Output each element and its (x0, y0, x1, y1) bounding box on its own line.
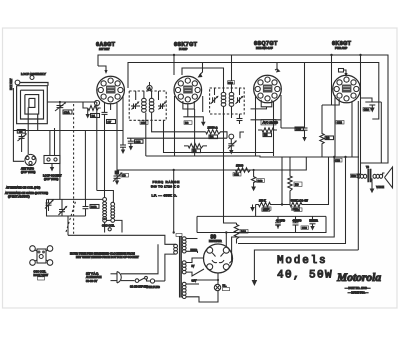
svg-text:KEY WHEN VIEWED FROM BOTTOM OF: KEY WHEN VIEWED FROM BOTTOM OF SOCKET (76, 255, 139, 259)
svg-text:6.3V: 6.3V (192, 281, 197, 283)
tone pot R11 (282, 198, 308, 212)
ground arrow under volume (250, 205, 255, 212)
wire x282 avc drop (281, 157, 283, 206)
wire bus y156 (146, 156, 359, 157)
wire heater winding (186, 281, 218, 303)
svg-text:R13: R13 (258, 179, 263, 183)
svg-text:FIELD: FIELD (191, 250, 198, 252)
svg-text:— MADE USA —: — MADE USA — (348, 291, 368, 295)
ground output (370, 182, 385, 194)
wire right vertical x381.7 (380, 102, 382, 163)
wire bus y170 (117, 157, 306, 171)
svg-text:C2A: C2A (64, 110, 70, 114)
label R2 (184, 121, 192, 125)
capacitor C13 (128, 138, 143, 150)
resistor R12 vertical (234, 223, 248, 244)
tube V4 6K6GT (333, 75, 361, 103)
resistor R9 (232, 163, 254, 176)
capacitor C7 (102, 102, 116, 198)
svg-text:OSC COIL: OSC COIL (102, 223, 115, 227)
svg-text:(IF NOT ADJUST): (IF NOT ADJUST) (8, 195, 30, 199)
svg-text:Motorola: Motorola (336, 272, 381, 284)
svg-text:C30: C30 (302, 226, 307, 230)
wire rectifier plate top (225, 231, 227, 247)
svg-text:C9: C9 (122, 174, 126, 178)
svg-text:R5: R5 (264, 133, 268, 137)
T1 trimmer left (131, 101, 140, 109)
svg-text:5V: 5V (192, 266, 195, 268)
capacitor C17 (237, 114, 243, 124)
filter cap C30b (293, 216, 309, 233)
svg-text:C16: C16 (228, 81, 233, 85)
wire junction riser x174 (173, 55, 175, 75)
wire osc bottom (105, 220, 122, 232)
svg-text:ATTENUATE ON GANG (BOTTOM): ATTENUATE ON GANG (BOTTOM) (5, 191, 48, 195)
osc coil back view (30, 246, 53, 280)
T1 trimmer right (158, 101, 167, 109)
T2 windings (215, 88, 240, 223)
svg-text:C12: C12 (141, 121, 146, 125)
output transformer T3 (350, 166, 384, 182)
dashed gang diagonal (66, 200, 76, 232)
wire tube2 cathode (183, 96, 205, 126)
label C12 (140, 121, 148, 125)
resistor R1 with ground (83, 102, 101, 119)
oscillator coil L2 (102, 198, 115, 231)
svg-text:R2: R2 (185, 121, 189, 125)
capacitor C19 (295, 63, 308, 142)
wire y128 avc row (281, 127, 305, 129)
wire tube4 screen (322, 75, 339, 105)
wire bus y138 (127, 137, 227, 139)
wire osc to bottom bus (67, 216, 69, 235)
svg-text:117 V A.C.: 117 V A.C. (86, 272, 99, 276)
filter cap C30a (275, 216, 285, 228)
svg-text:LOOP ASSEMBLY: LOOP ASSEMBLY (21, 72, 46, 76)
node dot top bus (173, 54, 175, 56)
resistor R13 vertical with ground (251, 169, 264, 191)
wire tube3 cathode row (251, 107, 282, 120)
svg-text:C24: C24 (364, 108, 369, 112)
label 6A8GT (96, 42, 116, 51)
dashed gang line (73, 104, 75, 235)
svg-text:R8: R8 (326, 136, 330, 140)
wire riser x331 (330, 54, 332, 75)
power transformer T2 (174, 234, 186, 299)
node A circle (147, 82, 152, 91)
wire tube1 pins down (97, 96, 123, 191)
text attenuate notes (5, 186, 48, 199)
filter choke (309, 216, 318, 230)
svg-text:R6: R6 (295, 183, 299, 187)
loop antenna L1 (17, 83, 48, 124)
svg-text:R1: R1 (92, 114, 96, 118)
wire HV winding to plate (186, 239, 197, 254)
label 6K6GT (332, 41, 352, 50)
note text tube pins (70, 252, 139, 260)
wire x85.4 drop (84, 131, 86, 200)
tube V2 6SK7GT (174, 76, 202, 104)
label 6SQ7GT (254, 41, 278, 50)
tube V1 6A8GT (94, 76, 124, 105)
capacitor C8 with ground (120, 145, 126, 154)
wire second top bus y62.5 (128, 63, 379, 120)
svg-text:— PART NO. 1840 —: — PART NO. 1840 — (345, 286, 370, 290)
svg-text:VOICE: VOICE (376, 186, 384, 189)
switch S1 (130, 276, 165, 288)
svg-text:500K LOG 4W: 500K LOG 4W (291, 198, 308, 202)
svg-text:40 MFD: 40 MFD (276, 219, 285, 222)
svg-text:C13: C13 (136, 140, 141, 144)
svg-text:SPKR PLUG: SPKR PLUG (146, 286, 160, 289)
capacitor C24 with ground (360, 98, 381, 113)
wire bottom tuning y216 (47, 199, 86, 216)
wire tube4 pins down (335, 95, 358, 250)
interlock plug on cord (146, 279, 160, 289)
wire x173.7 drop (173, 170, 175, 234)
svg-text:C26: C26 (264, 207, 269, 211)
svg-text:500: 500 (351, 174, 356, 178)
wire nested rect A (229, 157, 334, 263)
svg-text:Models: Models (277, 255, 327, 267)
resistor R5 (258, 128, 277, 137)
label C28 (292, 207, 300, 211)
text part lines (345, 286, 370, 295)
power cord plug (86, 272, 121, 284)
label C22 (336, 121, 344, 125)
wire cord upper (121, 244, 158, 273)
grid cap arrow V1 (98, 66, 108, 74)
svg-text:250 K: 250 K (259, 198, 266, 202)
wire screen loop over tube2 (182, 68, 224, 88)
speaker SP1 (385, 167, 393, 188)
svg-text:C19: C19 (296, 127, 301, 131)
svg-text:(TOP VIEW): (TOP VIEW) (21, 170, 35, 174)
trimmer C9 (113, 170, 129, 185)
tuning trimmer C4 (45, 199, 54, 211)
node dot bus2 (359, 54, 361, 56)
text Models (277, 255, 327, 267)
svg-text:AVC 2MEG: AVC 2MEG (263, 121, 279, 125)
svg-text:1ST DET: 1ST DET (99, 47, 110, 51)
T1 windings (136, 91, 206, 156)
svg-text:NOTE: TUBE PINS NUMBERED CLOC: NOTE: TUBE PINS NUMBERED CLOCKWISE FROM (70, 252, 136, 256)
wire transformer primary top (68, 235, 176, 244)
capacitor C10 (83, 199, 100, 216)
wire volume left riser (255, 205, 257, 217)
resistor R4 (206, 125, 227, 139)
svg-text:PWR AMP: PWR AMP (335, 46, 348, 50)
wire osc section riser (240, 132, 244, 138)
trimmer capacitor C3 (17, 130, 27, 153)
svg-text:20000 Ω: 20000 Ω (208, 125, 218, 129)
wire filament winding to rect (186, 250, 204, 276)
wire nested rect C (254, 250, 358, 280)
resistor R6 vertical (288, 157, 302, 205)
label AVC box (261, 120, 278, 125)
wire tube3 pins down (256, 95, 282, 156)
wire loop left down (13, 88, 24, 161)
svg-text:ALTERNATE: ALTERNATE (86, 275, 102, 279)
svg-text:C22: C22 (337, 121, 342, 125)
wire osc feed y190.5 (97, 191, 114, 203)
svg-text:S1 ON-OFF SW: S1 ON-OFF SW (130, 286, 148, 289)
svg-text:DET-AVC-1AF: DET-AVC-1AF (256, 46, 273, 50)
svg-text:FREQ RANGE: FREQ RANGE (153, 180, 180, 184)
IF transformer T1 dashed box (129, 91, 166, 120)
svg-text:EXT ANT: EXT ANT (9, 78, 13, 90)
resistor R3 (184, 144, 207, 154)
tuning capacitor C2A (55, 101, 72, 199)
volume pot R10 (256, 198, 282, 212)
svg-text:540 TO 1720 K C: 540 TO 1720 K C (151, 184, 180, 188)
wire socket feeds (50, 128, 55, 156)
svg-text:ATTENUATE ON COIL (540): ATTENUATE ON COIL (540) (6, 186, 40, 190)
ant plug P1 top view (21, 154, 36, 173)
label C16 (228, 81, 235, 85)
wire x360.5 drop to output transformer (360, 55, 362, 174)
svg-text:R12: R12 (241, 230, 246, 234)
wire cord lower (121, 280, 135, 282)
grid cap arrow V3 (275, 63, 281, 73)
svg-text:P.L.: P.L. (223, 285, 227, 288)
wire bus y152.5 (164, 120, 274, 152)
svg-text:(TOP VIEW): (TOP VIEW) (44, 177, 58, 181)
rectifier tube V5 80 (204, 235, 233, 273)
wire tuning row y199 (47, 198, 103, 200)
text FREQ RANGE (151, 180, 180, 198)
ant socket J1 (43, 156, 62, 181)
junction box y170 (115, 171, 120, 175)
svg-text:C23: C23 (335, 159, 340, 163)
grid cap arrow V2 (198, 63, 203, 78)
wire tube2 pins down (175, 96, 195, 156)
svg-text:BACK VIEW: BACK VIEW (34, 273, 49, 277)
resistor R8 vertical (320, 105, 334, 157)
label LOOP ASSEMBLY (21, 72, 46, 80)
terminal ant (15, 80, 20, 85)
svg-text:50-60 CY: 50-60 CY (86, 279, 98, 283)
label C26 (263, 207, 271, 211)
svg-text:C28: C28 (293, 207, 298, 211)
IF transformer T2 dashed box (210, 88, 245, 114)
tube V3 6SQ7GT (254, 75, 282, 103)
text 40 50W (277, 270, 333, 282)
wire loop ends down (28, 124, 38, 154)
label 6SK7GT (174, 42, 198, 51)
wire transformer primary bottom (165, 254, 176, 281)
label EXT ANT (9, 78, 13, 90)
wire bus y216 right (197, 216, 326, 232)
svg-text:C7: C7 (108, 120, 112, 124)
capacitor C14 with ground (228, 134, 237, 154)
pilot lamp (195, 273, 230, 291)
svg-text:C21: C21 (234, 173, 239, 177)
wire bus y130.5 (13, 130, 123, 132)
wire top B+ bus y55 (98, 55, 388, 163)
T2 trimmer left (211, 96, 219, 104)
wire x347 junction (333, 156, 347, 158)
ground bottom right (252, 280, 258, 286)
tuning trimmer C5 (59, 199, 68, 216)
grid cap arrow V4 (339, 69, 348, 78)
svg-text:RECTIFIER: RECTIFIER (209, 240, 222, 243)
T2 trimmer right (236, 96, 244, 104)
svg-text:40 MFD: 40 MFD (293, 219, 302, 222)
text Motorola script (336, 272, 381, 284)
svg-text:R1B: R1B (91, 205, 97, 209)
wire IFT2 right feed (231, 55, 233, 88)
svg-text:40, 50W: 40, 50W (277, 270, 333, 282)
wire bus y232 (197, 216, 326, 232)
wire loop to grid y102 (47, 101, 97, 103)
svg-text:IF AMP: IF AMP (179, 47, 188, 51)
wire tone riser (305, 157, 329, 205)
label C23 (334, 158, 342, 162)
wire nested rect B (238, 157, 346, 244)
